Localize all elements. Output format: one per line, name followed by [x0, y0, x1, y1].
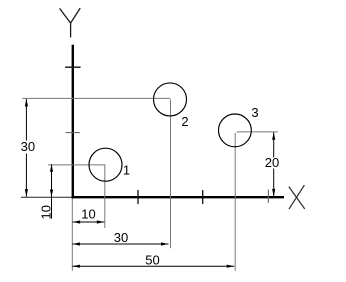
dimension 30 horizontal bottom: line [72, 243, 168, 245]
svg-text:3: 3 [251, 105, 258, 120]
circle 1 [89, 148, 122, 181]
Y axis tick 1 [65, 66, 81, 68]
X axis tick 2 [202, 190, 204, 204]
extension line circle2 level horizontal [22, 97, 170, 99]
dimension 20 vertical right: arrows [272, 132, 275, 140]
svg-text:10: 10 [38, 205, 53, 219]
Y axis label glyph [60, 8, 81, 37]
dimension 10 horizontal bottom: arrows [73, 220, 81, 223]
X axis tick 3 [267, 190, 269, 203]
dimension 50 horizontal bottom: line [72, 265, 234, 267]
svg-text:50: 50 [145, 253, 159, 268]
dimension 20 vertical right: line [273, 132, 275, 196]
X axis [72, 196, 284, 198]
svg-text:2: 2 [181, 114, 188, 129]
svg-text:1: 1 [123, 163, 130, 178]
dimension 30 vertical left: arrows [25, 99, 28, 107]
svg-text:10: 10 [81, 207, 95, 222]
dimension 10 horizontal bottom: line [73, 221, 105, 223]
svg-text:30: 30 [114, 230, 128, 245]
extension line circle3 level horizontal [237, 131, 278, 133]
dimension 10 vertical left: line [51, 164, 53, 218]
extension line circle2 vertical [170, 99, 172, 248]
X axis left thin extension [21, 196, 72, 198]
dimension 30 horizontal bottom: arrows [72, 242, 80, 245]
X axis label glyph [289, 185, 305, 209]
dimension 30 vertical left: line [25, 99, 27, 197]
X axis tick 1 [137, 190, 139, 204]
Y axis tick 2 [66, 132, 80, 134]
Y axis [72, 45, 74, 199]
dimension 50 horizontal bottom: arrows [72, 265, 80, 268]
dimension 10 vertical left: arrows [50, 164, 53, 172]
svg-text:30: 30 [21, 139, 35, 154]
extension line circle1 level horizontal [48, 164, 106, 166]
extension line circle3 vertical [234, 133, 236, 271]
circle 2 [154, 83, 187, 116]
extension line circle1 vertical [104, 165, 106, 228]
circle 3 [219, 114, 252, 147]
svg-text:20: 20 [265, 155, 279, 170]
extension line from origin down [71, 198, 73, 270]
